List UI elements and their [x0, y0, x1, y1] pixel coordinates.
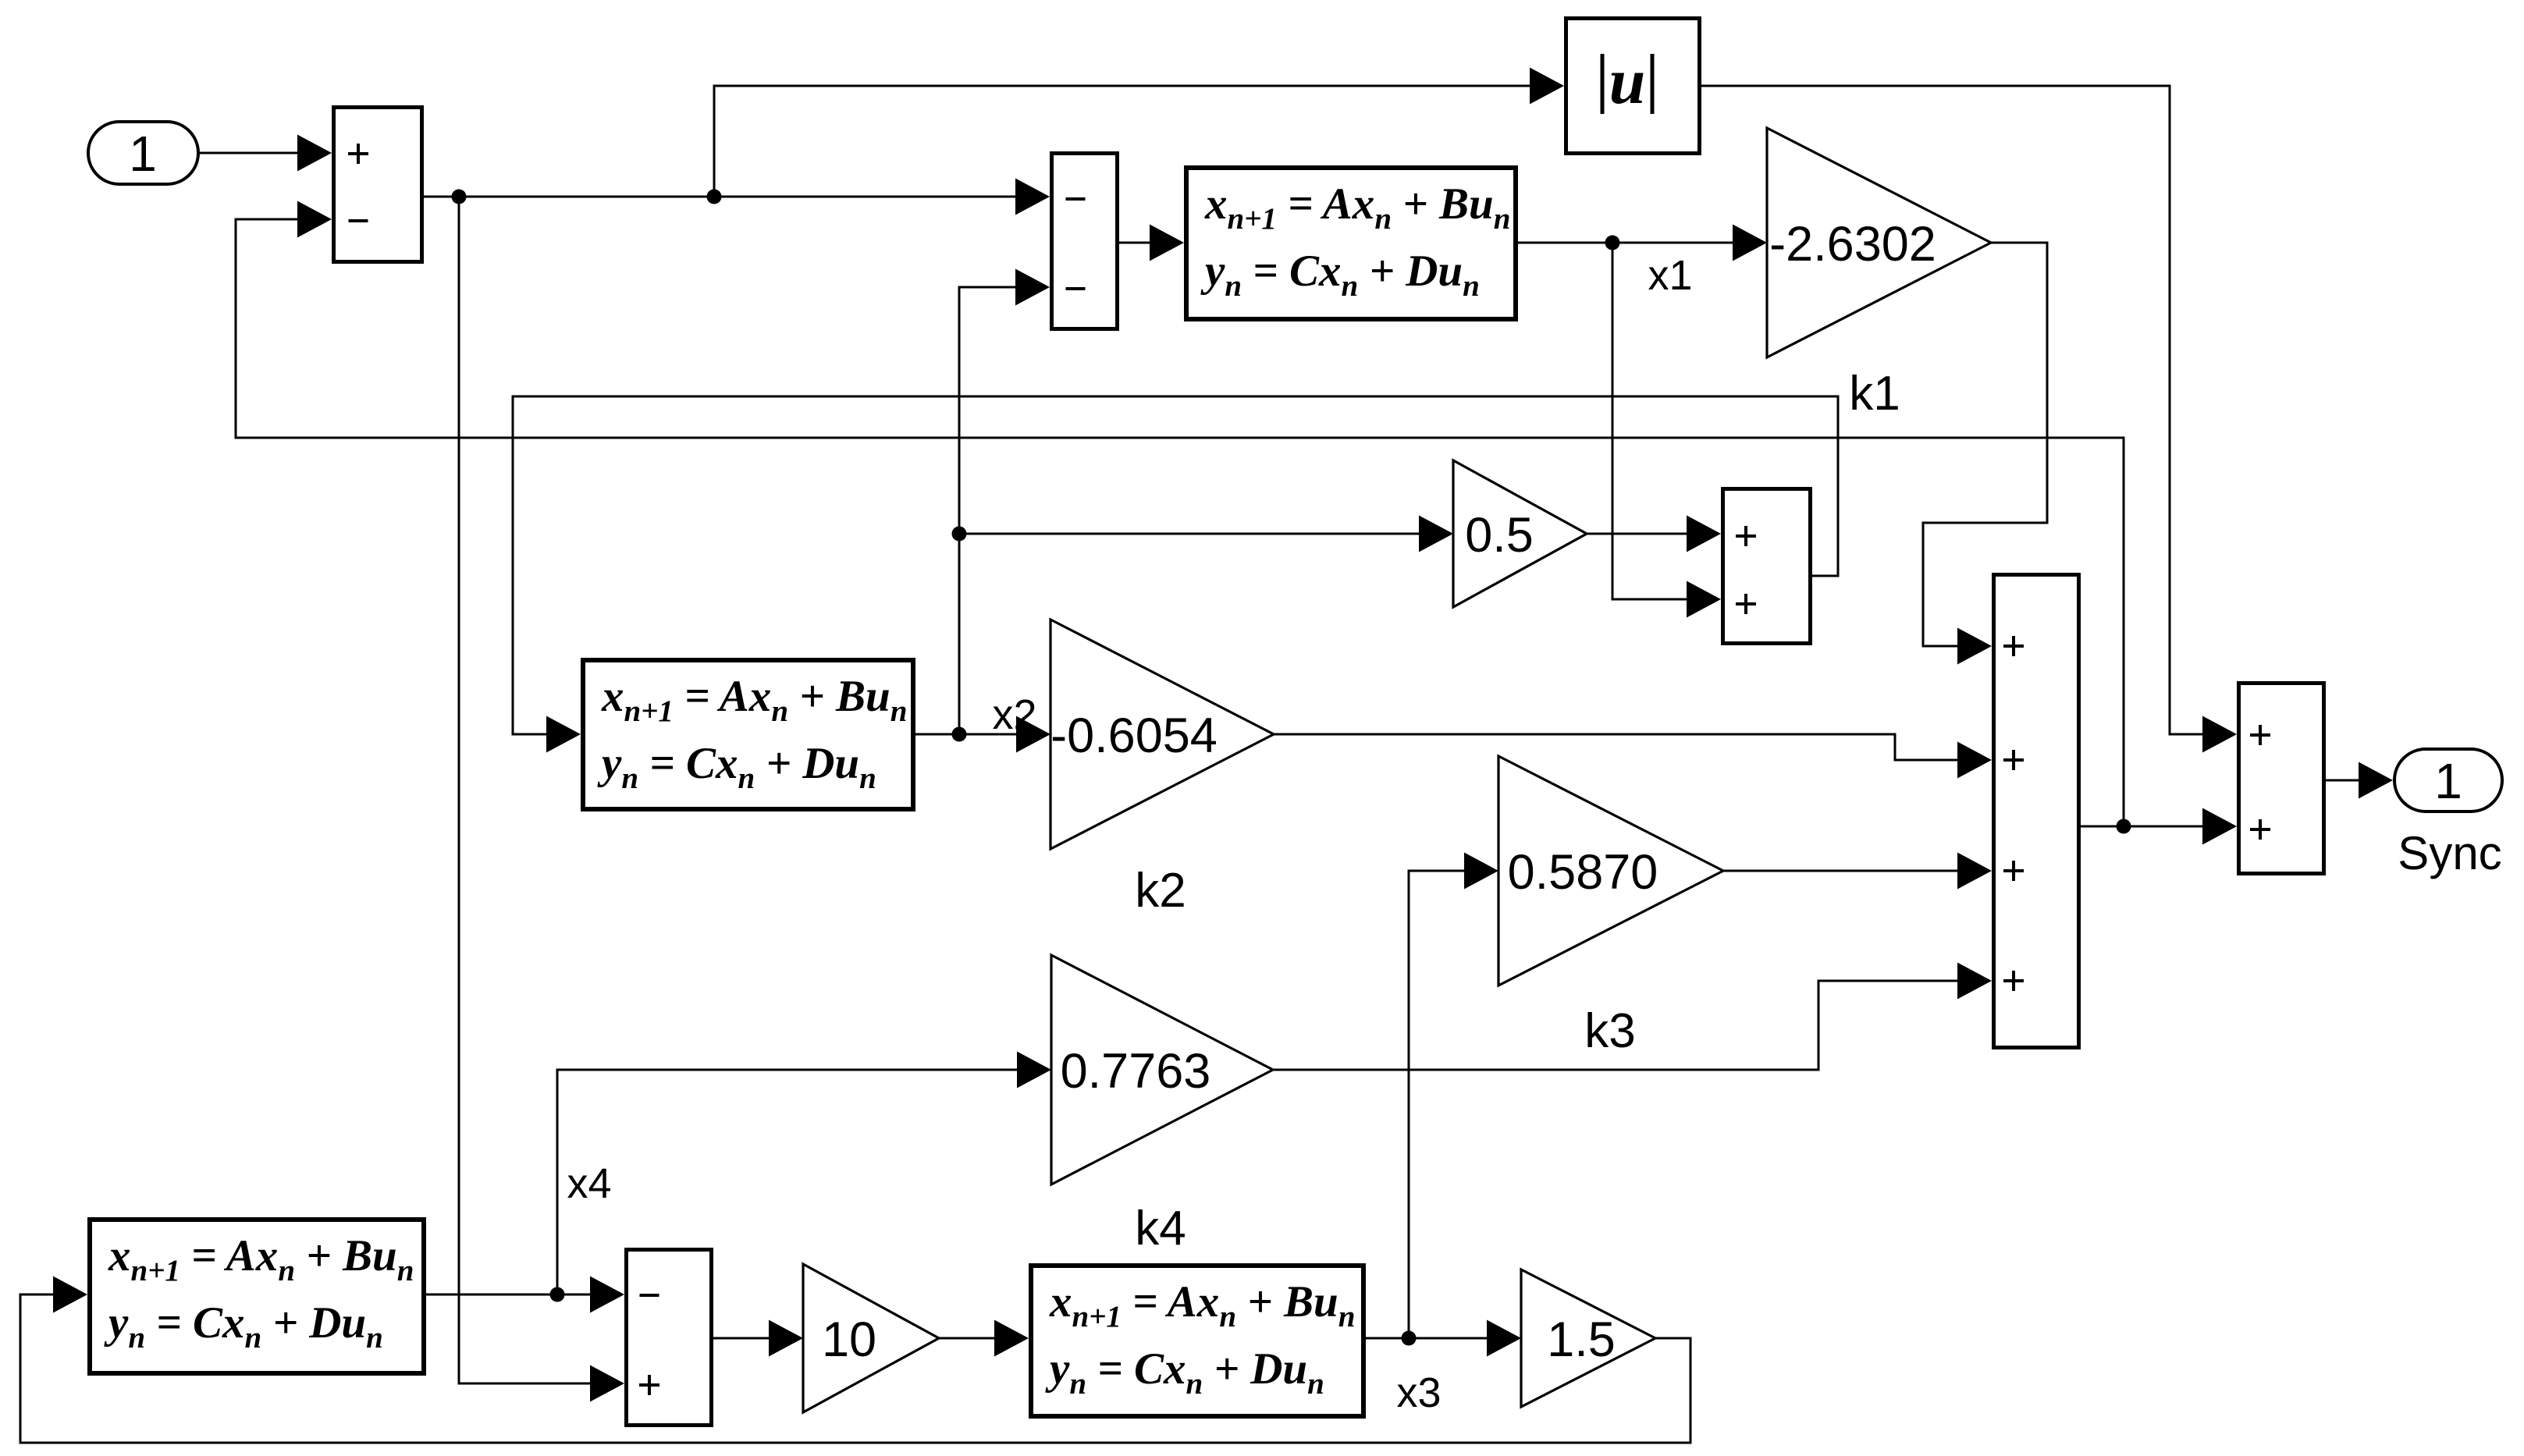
outport Out1 [2394, 749, 2502, 811]
sum Sum1 [334, 108, 422, 262]
wire node x4 riser to gain k4 input [557, 1052, 1051, 1295]
wire gain g10 output to SS4 input [939, 1320, 1029, 1357]
svg-text:u: u [1609, 45, 1646, 118]
wire node x1 down to Sum3 second plus input [1612, 243, 1721, 618]
svg-text:0.7763: 0.7763 [1061, 1044, 1211, 1099]
svg-text:0.5: 0.5 [1465, 508, 1534, 563]
wire node x3 riser to gain k3 input [1409, 853, 1498, 1339]
wire gain k3 output to Sum6 third plus input [1723, 853, 1992, 890]
sum Sum2 (minus minus) [1052, 154, 1118, 329]
wire Sum2 output to SS1 input [1119, 225, 1184, 261]
svg-text:k4: k4 [1135, 1202, 1186, 1255]
svg-text:yn = Cxn + Dun: yn = Cxn + Dun [597, 739, 876, 795]
svg-text:k2: k2 [1135, 864, 1186, 918]
sum Sum5 (bottom minus plus) [627, 1250, 712, 1426]
wire node x2 riser to Sum2 second input and to gain g05 input, junction dots [952, 269, 1454, 735]
state-space SS2 [583, 660, 913, 809]
svg-text:k1: k1 [1849, 367, 1900, 421]
wire gain g15 output feedback along bottom to SS3 input [20, 1277, 1690, 1444]
wire SS4 output to gain g15 input, node x3 junction dot [1366, 1320, 1521, 1357]
svg-text:-0.6054: -0.6054 [1050, 708, 1218, 763]
sum Sum6 (four plus inputs) [1994, 575, 2079, 1048]
wire SS2 output to gain k2, node x2 junction dot [915, 716, 1050, 753]
wire branch from Sum1 output down to Sum5 plus input [459, 197, 624, 1402]
svg-text:Sync: Sync [2398, 827, 2501, 879]
gain k2 [1050, 620, 1274, 849]
svg-text:x4: x4 [567, 1160, 611, 1207]
wire branch up to Abs input [714, 68, 1564, 197]
gain g10 [803, 1264, 939, 1412]
svg-text:10: 10 [822, 1312, 876, 1367]
wire Sum1 output to Sum2 first input, junction dots at x1 branch points [424, 179, 1050, 215]
gain k4 [1051, 955, 1273, 1184]
wire SS1 output to gain k1, node x1 junction dot [1518, 225, 1767, 261]
inport In1 [88, 122, 198, 184]
wire In1 to Sum1 plus input [200, 135, 332, 172]
svg-text:yn = Cxn + Dun: yn = Cxn + Dun [1200, 247, 1480, 303]
svg-text:1: 1 [2434, 753, 2462, 809]
gain g05 [1453, 460, 1587, 607]
svg-text:yn = Cxn + Dun: yn = Cxn + Dun [104, 1298, 383, 1355]
wire feedback from Sum6 output up and left to Sum1 minus input [236, 201, 2124, 827]
gain g15 [1521, 1270, 1655, 1407]
wire Sum5 output to gain g10 input [713, 1320, 803, 1357]
abs block |u| [1566, 19, 1700, 154]
state-space SS4 [1031, 1266, 1363, 1416]
sum Sum7 (output sum) [2239, 684, 2324, 874]
wire Sum3 output routed to SS2 input [513, 396, 1838, 753]
gain k1 [1767, 128, 1991, 357]
svg-text:-2.6302: -2.6302 [1769, 217, 1936, 272]
state-space SS3 [90, 1220, 424, 1373]
wire gain g05 output to Sum3 first plus input [1587, 516, 1721, 552]
wire SS3 output to Sum5 minus input, node x4 junction dot [426, 1277, 624, 1313]
svg-text:x1: x1 [1648, 252, 1692, 299]
svg-text:yn = Cxn + Dun: yn = Cxn + Dun [1045, 1344, 1324, 1401]
wire gain k1 output to Sum6 first plus input [1923, 243, 2047, 665]
wire gain k4 output to Sum6 fourth plus input [1273, 963, 1992, 1071]
svg-text:x2: x2 [992, 691, 1036, 738]
svg-text:1: 1 [129, 126, 157, 182]
sum Sum3 [1723, 489, 1811, 644]
svg-text:x3: x3 [1396, 1369, 1441, 1416]
wire gain k2 output to Sum6 second plus input with jog [1274, 734, 1992, 779]
svg-text:1.5: 1.5 [1547, 1312, 1616, 1367]
wire Abs output down to Sum7 first plus input [1701, 86, 2237, 753]
state-space SS1 [1186, 168, 1516, 319]
svg-text:k3: k3 [1584, 1004, 1635, 1058]
wire Sum7 output to Out1 [2326, 762, 2393, 799]
svg-text:0.5870: 0.5870 [1508, 845, 1658, 900]
wire Sum6 output to Sum7 second plus input, junction dot [2081, 808, 2237, 845]
gain k3 [1498, 756, 1723, 985]
